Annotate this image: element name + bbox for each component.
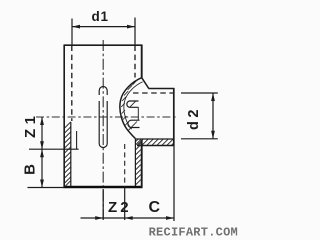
body outline: bottom edge (thick) — [64, 186, 143, 189]
dimension d1: line — [72, 26, 135, 28]
saddle hatching — [121, 80, 137, 131]
dimension Z1: line — [41, 117, 43, 149]
dimension B: bottom tick — [28, 187, 65, 189]
dimension B: bottom arrow — [40, 180, 44, 188]
dimension Z2/C: line — [81, 217, 175, 219]
dimension d1: extension line left — [71, 19, 73, 45]
dimension Z1: bottom arrow — [40, 141, 44, 149]
dimension Z2/C: extension at centerline — [102, 189, 104, 220]
dimension B: top arrow — [40, 149, 44, 157]
right wall inner (solid, sectioned) — [134, 139, 136, 187]
socket depth reference line — [29, 148, 79, 150]
branch inner top (dashed, d2) — [133, 92, 174, 94]
horizontal centerline of branch — [36, 116, 178, 118]
dimension d2: extension tick bottom — [181, 138, 218, 140]
right wall hatching — [135, 139, 141, 185]
vertical centerline of main run — [102, 40, 104, 219]
socket stop ring lower prong — [128, 120, 140, 127]
dimension B: line — [41, 149, 43, 187]
dimension d2: line — [212, 93, 214, 139]
dimension d2: extension tick top — [181, 92, 218, 94]
svg-text:Z2: Z2 — [108, 199, 132, 216]
branch outer bottom — [137, 145, 174, 147]
svg-text:d2: d2 — [186, 106, 202, 130]
hidden hole edge below branch (dashed) — [124, 144, 126, 186]
svg-text:B: B — [22, 164, 39, 175]
dimension d2: bottom arrow — [211, 131, 215, 139]
dimension Z2/C: extension at socket stop — [124, 186, 126, 220]
dimension d1: left arrow — [72, 25, 80, 29]
socket stop ring upper prong — [127, 101, 139, 107]
svg-text:RECIFART.COM: RECIFART.COM — [149, 226, 238, 240]
left wall hatching — [65, 122, 71, 187]
branch chamfer top — [142, 78, 149, 89]
body outline: right wall upper — [141, 45, 143, 78]
dimension C: extension at branch end — [173, 146, 175, 221]
branch inner bottom (solid, sectioned) — [135, 138, 173, 140]
left socket inner wall (solid, sectioned) — [70, 122, 72, 186]
saddle inner curve — [124, 82, 143, 129]
body outline: top edge — [64, 44, 143, 46]
socket stop inner vertical — [76, 131, 78, 149]
body outline: right wall lower — [141, 140, 143, 188]
hidden bore line right (dashed, d1) — [134, 46, 136, 78]
hidden bore line left (dashed, d1) — [71, 46, 73, 122]
branch end cap — [173, 88, 175, 146]
capsule: branch bore intersection on far wall — [99, 87, 107, 96]
socket stop face vertical — [137, 107, 139, 120]
dimension Z2: left arrow (outside, pointing right) — [95, 216, 103, 220]
body outline: left wall — [63, 45, 65, 188]
dimension d1: extension line right — [134, 18, 136, 45]
svg-text:d1: d1 — [92, 9, 109, 24]
dimension C: left arrow — [125, 216, 133, 220]
branch bottom wall hatching — [137, 139, 174, 145]
dimension d2: top arrow — [211, 93, 215, 101]
svg-text:Z1: Z1 — [22, 112, 39, 139]
saddle outer curve (branch joins body) — [120, 78, 142, 139]
branch outer top — [149, 88, 175, 90]
dimension C: right arrow — [166, 216, 174, 220]
dimension d1: right arrow — [127, 25, 135, 29]
svg-text:C: C — [149, 199, 161, 216]
dimension Z1: top arrow — [40, 117, 44, 125]
